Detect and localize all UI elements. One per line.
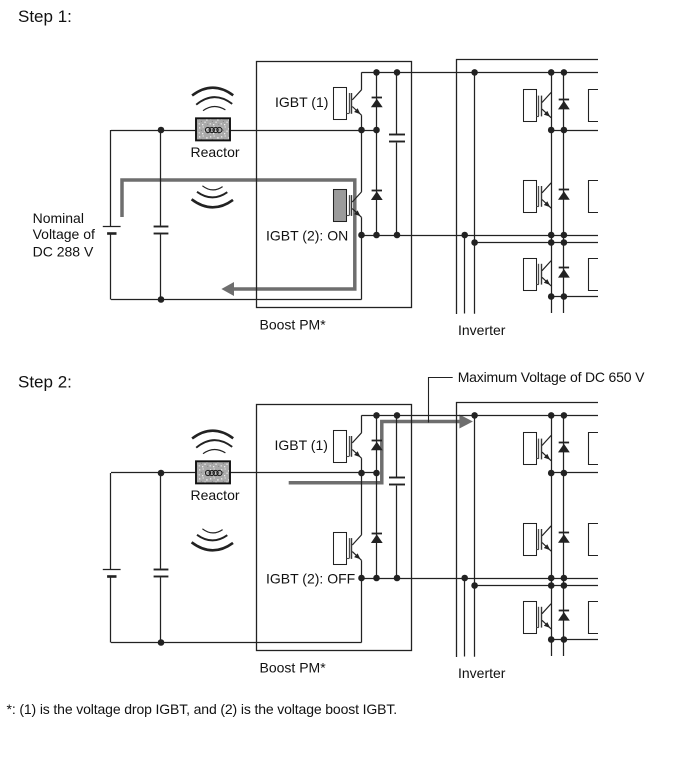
wire: filter capacitor branch upper [160,130,162,226]
node: bottom rail junction at capacitor [158,639,165,646]
wire: smoothing capacitor lower lead [396,143,398,235]
svg-text:Voltage of: Voltage of [33,226,95,242]
wire: IGBT1 collector riser [361,72,363,90]
svg-text:Reactor: Reactor [191,144,240,160]
node: phase line 1 at IGBT rail [548,127,555,134]
wire: IGBT1 emitter drop [361,458,363,473]
svg-text:Step 2:: Step 2: [18,373,72,392]
wire: battery negative to bottom rail [110,234,112,300]
node: top bus at diode rail [373,412,380,419]
node: top bus at capacitor [394,412,401,419]
field arcs below reactor [192,529,233,551]
wire: negative bus drop to bottom rail [361,578,363,643]
wire: battery negative to bottom rail [110,577,112,643]
svg-text:Inverter: Inverter [458,322,506,338]
wire: battery positive riser (left vertical) [110,130,112,226]
inverter diode D4 middle (step 2) [558,533,570,543]
current flow path (step 2), gray [289,422,460,483]
wire: reactor input rail [111,130,377,132]
node: negative bus at diode rail [373,575,380,582]
node: top bus at diode rail [561,69,568,76]
wire: negative bus [362,235,599,237]
current flow path (step 1), gray [122,180,355,289]
partial gate rect of clipped right column (middle) [589,181,599,213]
smoothing capacitor C2 (step 2) [389,478,405,485]
wire: inverter bus drop B [474,72,476,313]
partial gate rect of clipped right column (upper) [589,90,599,122]
node: phase line 2 at drop B [471,582,478,589]
node: negative bus at inverter diode rail [561,232,568,239]
node: phase line 2 at IGBT rail [548,582,555,589]
node: negative bus at capacitor [394,232,401,239]
node: IGBT1 emitter / IGBT2 collector junction [358,470,365,477]
node: phase line 1 at diode rail [561,470,568,477]
wire: inverter phase line 1 [551,472,598,474]
wire: inverter IGBT rail [551,415,553,656]
node: negative bus at diode rail [373,232,380,239]
node: top bus at IGBT rail [548,69,555,76]
svg-text:Maximum Voltage of DC 650 V: Maximum Voltage of DC 650 V [458,369,645,385]
wire: negative bus drop to bottom rail [361,235,363,300]
wire: inverter bus drop A [464,235,466,314]
partial gate rect of clipped right column (lower) [589,602,599,634]
wire: inverter diode rail [563,72,565,313]
wire: smoothing capacitor upper lead [396,415,398,477]
IGBT Q2 "(2)" (step 1) [334,190,362,222]
partial gate rect of clipped right column (middle) [589,524,599,556]
wire: reactor input rail [111,472,377,474]
battery B1 (step 2) [103,570,121,577]
inverter diode D5 lower (step 1) [558,268,570,278]
wire: inverter bottom line [551,639,598,641]
wire: filter capacitor branch lower [160,577,162,642]
inverter IGBT Q3 upper (step 1) [524,90,552,122]
node: negative bus at capacitor [394,575,401,582]
IGBT Q1 "(1)" (step 1) [334,88,362,120]
node: phase line 2 at IGBT rail [548,239,555,246]
node: negative bus at IGBT2 emitter [358,232,365,239]
node: phase line 1 at diode rail [561,127,568,134]
field arcs below reactor [192,186,233,208]
node: top bus at capacitor [394,69,401,76]
wire: negative bus [362,578,599,580]
partial gate rect of clipped right column (upper) [589,433,599,465]
node: filter capacitor top junction [158,470,165,477]
diode D1 (step 2) [371,441,383,451]
svg-text:IGBT (2): ON: IGBT (2): ON [266,227,348,243]
wire: IGBT2 collector riser [361,473,363,535]
filter capacitor C1 (step 2) [154,570,169,577]
callout pointer line for Maximum Voltage label [429,378,453,423]
field arcs above reactor [192,431,233,454]
node: bus drop A junction [461,575,468,582]
diode D2 (step 1) [371,191,383,201]
node: negative bus at IGBT rail [548,232,555,239]
node: bottom line at IGBT rail [548,293,555,300]
node: IGBT1 emitter / IGBT2 collector junction [358,127,365,134]
wire: filter capacitor branch lower [160,234,162,299]
svg-text:Boost PM*: Boost PM* [260,659,327,675]
diode D2 (step 2) [371,534,383,544]
node: diode midpoint junction [373,127,380,134]
partial gate rect of clipped right column (lower) [589,259,599,291]
node: negative bus at IGBT rail [548,575,555,582]
svg-text:Reactor: Reactor [191,487,240,503]
wire: IGBT2 emitter drop [361,217,363,235]
node: filter capacitor top junction [158,127,165,134]
wire: IGBT2 collector riser [361,130,363,192]
reactor L1 (inductor in gray box) [196,461,230,483]
svg-text:IGBT (2): OFF: IGBT (2): OFF [266,570,355,586]
svg-text:DC 288 V: DC 288 V [33,243,94,259]
wire: smoothing capacitor upper lead [396,72,398,134]
filter capacitor C1 (step 1) [154,227,169,234]
inverter IGBT Q4 middle (step 1) [524,181,552,213]
IGBT Q2 "(2)" (step 2) [334,533,362,565]
node: bottom rail junction at capacitor [158,296,165,303]
node: top bus at drop B [471,69,478,76]
inverter diode D4 middle (step 1) [558,190,570,200]
wire: diode rail upper [376,72,378,130]
node: negative bus at IGBT2 emitter [358,575,365,582]
node: bottom line at diode rail [561,636,568,643]
node: negative bus at inverter diode rail [561,575,568,582]
wire: inverter phase line 1 [551,130,598,132]
svg-text:Step 1:: Step 1: [18,7,72,26]
wire: inverter diode rail [563,415,565,656]
inverter diode D3 upper (step 2) [558,443,570,453]
inverter enclosure (left and top edges) [457,403,599,658]
wire: inverter IGBT rail [551,72,553,313]
node: top bus at IGBT rail [548,412,555,419]
boost PM enclosure box [257,405,412,651]
wire: inverter bus drop B [474,415,476,656]
node: top bus at diode rail [373,69,380,76]
wire: inverter phase line 2 [475,585,598,587]
wire: IGBT2 emitter drop [361,560,363,578]
diode D1 (step 1) [371,98,383,108]
inverter IGBT Q5 lower (step 2) [524,602,552,634]
wire: IGBT1 collector riser [361,415,363,433]
svg-text:Boost PM*: Boost PM* [260,316,327,332]
svg-text:IGBT (1): IGBT (1) [275,94,328,110]
node: diode midpoint junction [373,470,380,477]
inverter diode D3 upper (step 1) [558,100,570,110]
wire: diode rail lower [376,473,378,578]
wire: high-voltage top bus [362,72,599,74]
node: phase line 1 at IGBT rail [548,470,555,477]
wire: diode rail lower [376,130,378,235]
node: phase line 2 at diode rail [561,239,568,246]
wire: filter capacitor branch upper [160,473,162,569]
wire: diode rail upper [376,415,378,473]
wire: smoothing capacitor lower lead [396,486,398,578]
inverter enclosure (left and top edges) [457,60,599,315]
node: bus drop A junction [461,232,468,239]
inverter IGBT Q4 middle (step 2) [524,524,552,556]
svg-text:IGBT (1): IGBT (1) [275,437,328,453]
node: top bus at diode rail [561,412,568,419]
wire: inverter bus drop A [464,578,466,657]
current flow arrowhead (step 2) [459,415,473,429]
field arcs above reactor [192,88,233,111]
IGBT Q1 "(1)" (step 2) [334,431,362,463]
node: bottom line at diode rail [561,293,568,300]
current flow arrowhead (step 1) [221,282,234,296]
wire: inverter phase line 2 [475,242,598,244]
battery B1 (step 1) [103,227,121,234]
node: top bus at drop B [471,412,478,419]
boost PM enclosure box [257,62,412,308]
wire: high-voltage top bus [362,415,599,417]
wire: inverter bottom line [551,296,598,298]
inverter IGBT Q3 upper (step 2) [524,433,552,465]
svg-text:Nominal: Nominal [33,210,84,226]
svg-text:Inverter: Inverter [458,665,506,681]
wire: bottom return rail [111,642,362,644]
node: phase line 2 at diode rail [561,582,568,589]
svg-text:*: (1) is the voltage drop IGB: *: (1) is the voltage drop IGBT, and (2)… [7,701,398,717]
inverter diode D5 lower (step 2) [558,611,570,621]
node: phase line 2 at drop B [471,239,478,246]
node: bottom line at IGBT rail [548,636,555,643]
wire: battery positive riser (left vertical) [110,473,112,569]
reactor L1 (inductor in gray box) [196,118,230,140]
inverter IGBT Q5 lower (step 1) [524,259,552,291]
smoothing capacitor C2 (step 1) [389,135,405,142]
wire: bottom return rail [111,299,362,301]
wire: IGBT1 emitter drop [361,115,363,130]
